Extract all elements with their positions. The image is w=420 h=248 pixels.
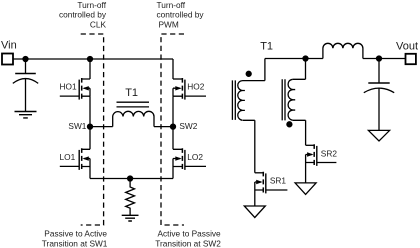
inductor T1 primary (bridge) coil [113, 111, 154, 126]
wire bottom rail [90, 178, 173, 180]
dashed PWM boundary [161, 34, 184, 225]
inductor T1 primary (bridge) core [117, 102, 150, 107]
svg-text:Passive to Active: Passive to Active [44, 229, 107, 239]
wire primary bottom lead [243, 120, 255, 173]
node SW1 [88, 124, 93, 129]
svg-text:CLK: CLK [90, 19, 107, 29]
svg-text:HO2: HO2 [187, 81, 204, 91]
svg-text:LO2: LO2 [187, 152, 203, 162]
svg-text:T1: T1 [125, 87, 138, 99]
junction secondary top node [303, 56, 308, 61]
svg-text:SR1: SR1 [270, 176, 287, 186]
wire SR2 source to ground [305, 163, 307, 183]
junction HO1 drain node [88, 57, 93, 62]
svg-text:Vin: Vin [1, 40, 17, 52]
svg-text:Transition at SW2: Transition at SW2 [155, 238, 221, 248]
transistor SR2 [306, 144, 337, 166]
svg-text:Turn-off: Turn-off [157, 0, 186, 10]
capacitor C-in curved plate [13, 79, 38, 84]
transformer primary winding [238, 81, 245, 121]
svg-text:T1: T1 [260, 41, 273, 53]
wire C-out to ground [378, 88, 380, 130]
svg-text:Transition at SW1: Transition at SW1 [42, 238, 108, 248]
transistor SR1 [255, 172, 288, 194]
transformer primary core [232, 80, 235, 120]
ground SR2 [295, 183, 316, 195]
phase dot primary [246, 71, 251, 76]
wire secondary top lead [293, 59, 306, 80]
capacitor C-in plate [15, 73, 36, 75]
svg-text:LO1: LO1 [60, 152, 76, 162]
junction output node [377, 56, 382, 61]
node Vout terminal [406, 54, 416, 64]
svg-text:controlled by: controlled by [157, 10, 205, 20]
node SW2 [171, 124, 176, 129]
transistor HO1 [60, 59, 90, 100]
svg-text:SW1: SW1 [68, 121, 86, 131]
wire top rail right [265, 58, 406, 60]
wire secondary bottom lead [293, 120, 306, 145]
svg-text:Active to Passive: Active to Passive [158, 229, 222, 239]
wire right leg top [172, 59, 174, 79]
ground resistor [122, 215, 139, 221]
wire LO2 source to bottom rail [172, 167, 174, 179]
transformer secondary core [282, 79, 285, 120]
svg-text:controlled by: controlled by [59, 10, 107, 20]
ground SR1 [244, 206, 265, 218]
capacitor C-out lead [378, 59, 380, 83]
inductor output filter [323, 43, 363, 58]
transistor LO2 [173, 127, 206, 170]
wire T1 to SW2 [154, 126, 173, 128]
capacitor C-out plate [368, 82, 389, 84]
transistor HO2 [173, 78, 206, 100]
svg-text:Vout: Vout [396, 40, 418, 52]
transformer secondary winding [288, 79, 295, 120]
wire input cap lead [25, 59, 27, 73]
svg-text:SR2: SR2 [321, 148, 338, 158]
wire top rail left [13, 58, 173, 60]
svg-text:SW2: SW2 [179, 121, 197, 131]
ground output [368, 130, 389, 141]
wire input cap to ground [25, 79, 27, 112]
wire primary top lead [243, 59, 265, 81]
dashed CLK boundary [81, 34, 104, 225]
wire LO1 source to bottom rail [89, 167, 91, 179]
svg-text:HO1: HO1 [60, 81, 77, 91]
capacitor C-out curved plate [364, 88, 394, 93]
wire SR1 source to ground [254, 190, 256, 206]
transistor LO1 [60, 127, 90, 170]
svg-text:PWM: PWM [159, 19, 179, 29]
svg-text:Turn-off: Turn-off [77, 0, 106, 10]
resistor bias [126, 179, 135, 216]
ground input [15, 112, 37, 118]
node Vin terminal [2, 54, 13, 65]
wire HO1 source to SW1 [89, 96, 91, 126]
wire HO2 source to SW2 [172, 96, 174, 126]
junction input cap node [23, 57, 28, 62]
junction bottom center node [128, 176, 133, 181]
phase dot secondary [287, 122, 292, 127]
wire SW1 to T1 [90, 126, 113, 128]
